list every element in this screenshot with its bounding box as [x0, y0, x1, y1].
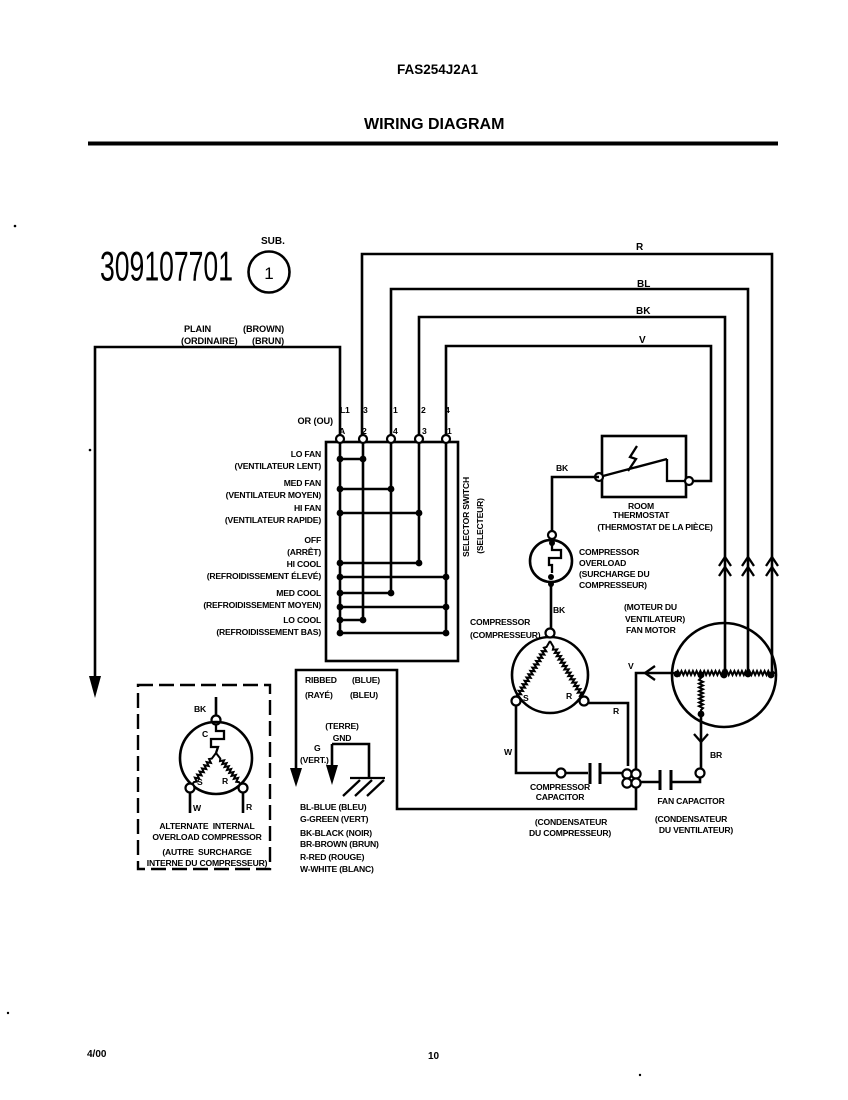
svg-text:FAN MOTOR: FAN MOTOR	[626, 625, 677, 635]
svg-text:(COMPRESSEUR): (COMPRESSEUR)	[470, 630, 541, 640]
thermostat terminals	[595, 473, 603, 481]
svg-text:V: V	[639, 335, 646, 346]
label ALTERNATE INTERNAL OVERLOAD COMPRESSOR	[147, 821, 268, 868]
svg-text:(REFROIDISSEMENT ÉLEVÉ): (REFROIDISSEMENT ÉLEVÉ)	[207, 571, 322, 581]
label COMPRESSOR CAPACITOR	[530, 782, 591, 802]
svg-text:A: A	[339, 426, 345, 436]
fan motor M2	[672, 623, 776, 727]
svg-text:DU COMPRESSEUR): DU COMPRESSEUR)	[529, 828, 611, 838]
svg-text:R: R	[246, 802, 253, 812]
label (MOTEUR DU VENTILATEUR) FAN MOTOR	[624, 602, 685, 635]
svg-text:(CONDENSATEUR: (CONDENSATEUR	[535, 817, 608, 827]
svg-text:(VENTILATEUR MOYEN): (VENTILATEUR MOYEN)	[226, 490, 322, 500]
sub revision circle	[249, 236, 290, 293]
wire compressor R to junction	[588, 703, 628, 766]
svg-text:OVERLOAD COMPRESSOR: OVERLOAD COMPRESSOR	[152, 832, 262, 842]
selector switch box	[326, 442, 458, 661]
compressor capacitor C1	[557, 763, 623, 784]
wire BK black from switch terminal 3 to fan motor	[419, 317, 725, 674]
svg-text:BK: BK	[556, 463, 569, 473]
svg-text:BL: BL	[637, 279, 650, 290]
terminal pin labels second row A 2 4 3 1	[339, 426, 452, 436]
svg-text:R: R	[613, 706, 620, 716]
terminal pin labels top row L1 3 1 2 4	[340, 405, 450, 415]
svg-text:S: S	[197, 777, 203, 787]
alternate compressor motor	[180, 697, 252, 794]
svg-text:C: C	[202, 729, 208, 739]
header rule	[88, 142, 778, 146]
label RIBBED (BLUE)	[305, 675, 380, 700]
label COMPRESSOR (COMPRESSEUR)	[470, 617, 541, 640]
label G (VERT.)	[300, 743, 329, 765]
svg-text:(BROWN): (BROWN)	[243, 324, 284, 334]
selector switch terminals	[336, 435, 450, 443]
svg-text:MED COOL: MED COOL	[276, 588, 321, 598]
svg-text:RIBBED: RIBBED	[305, 675, 337, 685]
svg-text:LO FAN: LO FAN	[291, 449, 321, 459]
svg-text:(SELECTEUR): (SELECTEUR)	[475, 498, 485, 554]
selector switch internal wires	[340, 442, 446, 633]
svg-text:BK-BLACK (NOIR): BK-BLACK (NOIR)	[300, 828, 372, 838]
svg-text:THERMOSTAT: THERMOSTAT	[613, 510, 670, 520]
svg-text:(MOTEUR DU: (MOTEUR DU	[624, 602, 677, 612]
svg-text:FAN CAPACITOR: FAN CAPACITOR	[657, 796, 725, 806]
svg-text:1: 1	[264, 264, 273, 283]
svg-text:G: G	[314, 743, 321, 753]
room thermostat box U1	[602, 436, 686, 497]
svg-text:CAPACITOR: CAPACITOR	[536, 792, 585, 802]
alternate compressor leads W and R	[190, 793, 253, 813]
wire V violet from switch terminal 1 to thermostat	[446, 346, 711, 481]
svg-text:R: R	[636, 242, 644, 253]
alternate internal overload compressor dashed box	[138, 685, 270, 869]
svg-text:BL-BLUE (BLEU): BL-BLUE (BLEU)	[300, 802, 367, 812]
label FAN CAPACITOR	[655, 796, 734, 835]
thermostat switch blade	[603, 446, 685, 481]
svg-text:BK: BK	[194, 704, 207, 714]
svg-text:OVERLOAD: OVERLOAD	[579, 558, 626, 568]
svg-text:3: 3	[363, 405, 368, 415]
svg-text:R: R	[566, 691, 573, 701]
chevron connection marks on R BL BK wires	[719, 557, 778, 576]
svg-text:COMPRESSOR: COMPRESSOR	[470, 617, 531, 627]
svg-text:SUB.: SUB.	[261, 236, 285, 247]
svg-text:V: V	[628, 661, 634, 671]
ground wire G with arrow	[326, 744, 369, 785]
svg-text:10: 10	[428, 1051, 440, 1062]
svg-text:COMPRESSEUR): COMPRESSEUR)	[579, 580, 647, 590]
svg-text:(BRUN): (BRUN)	[252, 336, 284, 346]
svg-text:DU VENTILATEUR): DU VENTILATEUR)	[659, 825, 734, 835]
svg-text:2: 2	[362, 426, 367, 436]
svg-text:(VENTILATEUR RAPIDE): (VENTILATEUR RAPIDE)	[225, 515, 321, 525]
label PLAIN (BROWN)	[181, 324, 284, 346]
wire thermostat to overload	[552, 477, 599, 531]
svg-text:GND: GND	[333, 733, 352, 743]
svg-text:(RAYÉ): (RAYÉ)	[305, 690, 333, 700]
svg-text:(REFROIDISSEMENT BAS): (REFROIDISSEMENT BAS)	[216, 627, 321, 637]
svg-text:VENTILATEUR): VENTILATEUR)	[625, 614, 685, 624]
svg-text:(BLEU): (BLEU)	[350, 690, 378, 700]
svg-text:4: 4	[393, 426, 398, 436]
svg-text:(VERT.): (VERT.)	[300, 755, 329, 765]
svg-text:(REFROIDISSEMENT MOYEN): (REFROIDISSEMENT MOYEN)	[203, 600, 321, 610]
svg-text:(VENTILATEUR LENT): (VENTILATEUR LENT)	[235, 461, 322, 471]
svg-text:SELECTOR SWITCH: SELECTOR SWITCH	[461, 477, 471, 557]
svg-text:L1: L1	[340, 405, 350, 415]
wire overload to compressor BK	[550, 584, 553, 629]
scan specks	[7, 225, 641, 1077]
svg-text:R-RED (ROUGE): R-RED (ROUGE)	[300, 852, 365, 862]
svg-text:FAS254J2A1: FAS254J2A1	[397, 62, 479, 77]
label SELECTOR SWITCH (SELECTEUR) vertical	[461, 477, 485, 557]
label ROOM THERMOSTAT	[597, 501, 713, 532]
compressor motor M1	[512, 629, 589, 714]
wire color legend	[300, 802, 379, 874]
svg-text:S: S	[523, 693, 529, 703]
wire plain-brown left power lead with arrow	[89, 347, 340, 698]
svg-text:(TERRE): (TERRE)	[325, 721, 359, 731]
wire fan motor V lead to junction	[628, 661, 672, 770]
svg-text:(ORDINAIRE): (ORDINAIRE)	[181, 336, 238, 346]
svg-text:W: W	[504, 747, 513, 757]
svg-text:PLAIN: PLAIN	[184, 324, 212, 334]
wire compressor S white to capacitor	[516, 705, 556, 773]
ground symbol	[343, 778, 385, 796]
svg-text:(BLUE): (BLUE)	[352, 675, 380, 685]
label (CONDENSATEUR DU COMPRESSEUR)	[529, 817, 611, 838]
wire ribbed-blue neutral lead with arrow	[290, 670, 636, 809]
svg-text:BK: BK	[636, 306, 651, 317]
svg-text:2: 2	[421, 405, 426, 415]
svg-text:W-WHITE (BLANC): W-WHITE (BLANC)	[300, 864, 374, 874]
svg-text:W: W	[193, 803, 202, 813]
svg-text:WIRING DIAGRAM: WIRING DIAGRAM	[364, 116, 504, 133]
wire R red from switch terminal 2 to fan motor	[362, 254, 772, 674]
svg-text:1: 1	[447, 426, 452, 436]
svg-text:HI COOL: HI COOL	[287, 559, 321, 569]
svg-text:ALTERNATE INTERNAL: ALTERNATE INTERNAL	[159, 821, 254, 831]
svg-text:4/00: 4/00	[87, 1049, 107, 1060]
compressor overload protector	[530, 531, 572, 587]
svg-text:(ARRÊT): (ARRÊT)	[287, 546, 321, 557]
svg-text:COMPRESSOR: COMPRESSOR	[530, 782, 591, 792]
label GND (TERRE)	[325, 721, 359, 743]
svg-text:BR-BROWN (BRUN): BR-BROWN (BRUN)	[300, 839, 379, 849]
wire BL blue from switch terminal 4 to fan motor	[391, 289, 748, 674]
label COMPRESSOR OVERLOAD	[579, 547, 649, 590]
svg-text:OR (OU): OR (OU)	[297, 416, 333, 426]
svg-text:1: 1	[393, 405, 398, 415]
svg-text:(CONDENSATEUR: (CONDENSATEUR	[655, 814, 728, 824]
svg-text:OFF: OFF	[304, 535, 321, 545]
svg-text:(AUTRE SURCHARGE: (AUTRE SURCHARGE	[162, 847, 252, 857]
svg-text:R: R	[222, 776, 229, 786]
svg-text:(SURCHARGE DU: (SURCHARGE DU	[579, 569, 649, 579]
svg-text:HI FAN: HI FAN	[294, 503, 321, 513]
switch position labels	[203, 449, 321, 637]
selector switch contact dots	[337, 456, 450, 637]
fan capacitor C2	[640, 769, 705, 791]
svg-text:MED FAN: MED FAN	[284, 478, 321, 488]
svg-text:BR: BR	[710, 750, 723, 760]
svg-text:309107701: 309107701	[100, 243, 233, 290]
wire fan motor BR lead to fan capacitor	[694, 714, 723, 769]
svg-text:4: 4	[445, 405, 450, 415]
svg-text:(THERMOSTAT DE LA PIÈCE): (THERMOSTAT DE LA PIÈCE)	[597, 522, 713, 532]
svg-text:LO COOL: LO COOL	[283, 615, 321, 625]
svg-text:INTERNE DU COMPRESSEUR): INTERNE DU COMPRESSEUR)	[147, 858, 268, 868]
svg-text:BK: BK	[553, 605, 566, 615]
svg-text:G-GREEN (VERT): G-GREEN (VERT)	[300, 814, 369, 824]
svg-text:COMPRESSOR: COMPRESSOR	[579, 547, 640, 557]
svg-text:3: 3	[422, 426, 427, 436]
junction terminal cluster	[622, 769, 640, 787]
